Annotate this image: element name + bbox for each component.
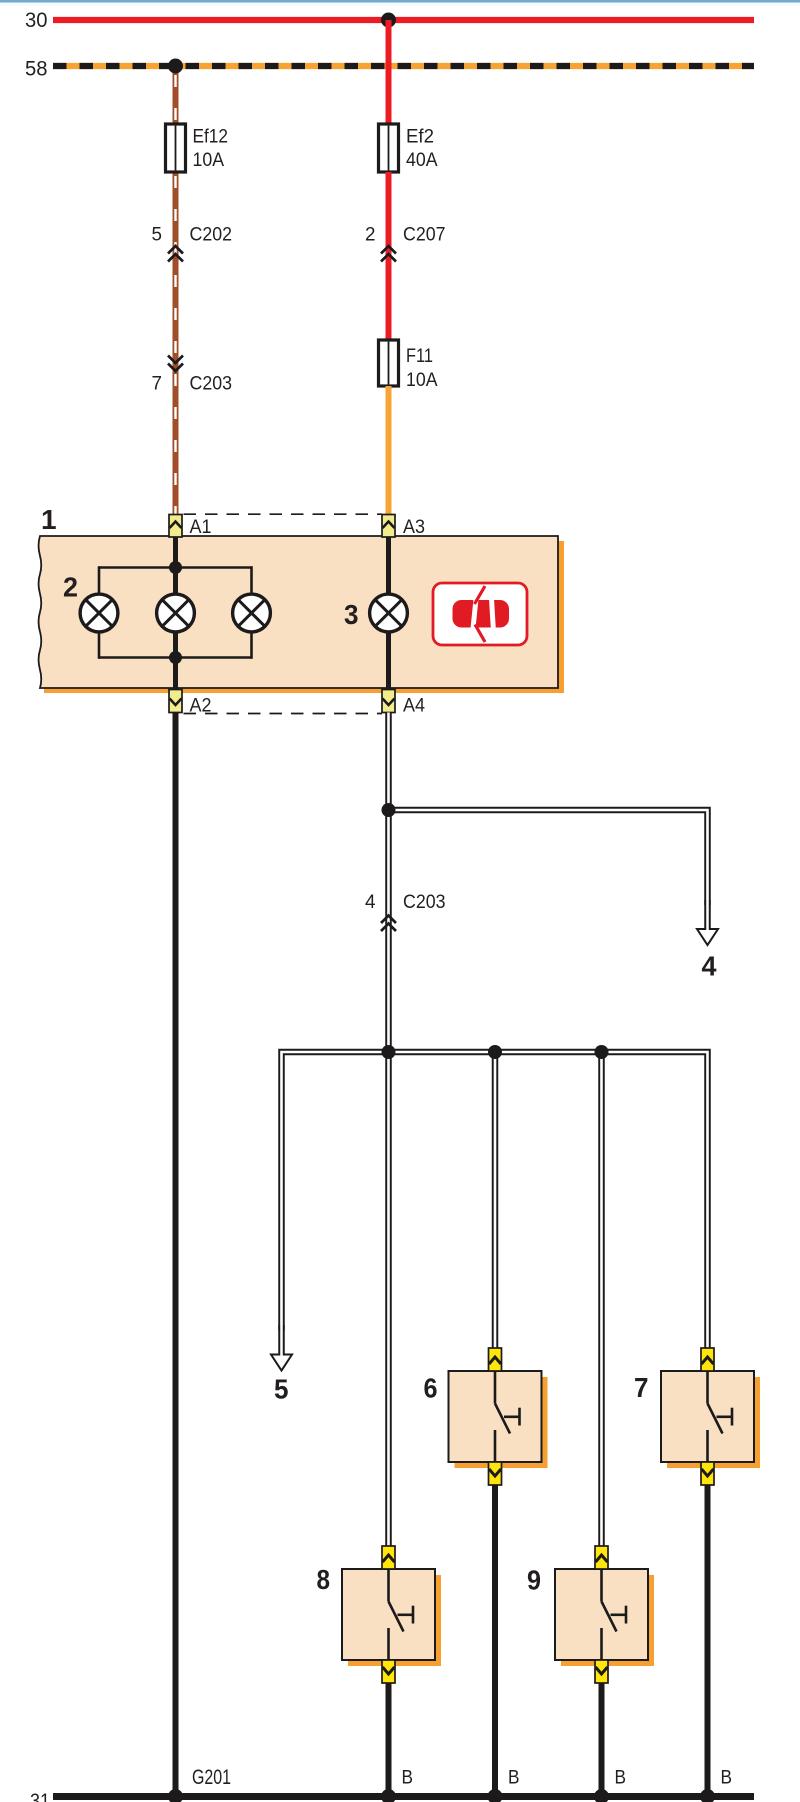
component 1: courtesy lamp unit box xyxy=(39,536,564,693)
junction B switch 8 xyxy=(381,1789,396,1802)
svg-text:10A: 10A xyxy=(406,369,438,391)
svg-text:6: 6 xyxy=(424,1373,438,1404)
svg-text:F11: F11 xyxy=(406,345,433,367)
pin A1 xyxy=(169,515,212,539)
svg-text:C203: C203 xyxy=(403,891,446,913)
dashed line A2-A4 xyxy=(184,713,383,715)
svg-text:40A: 40A xyxy=(406,149,438,171)
arrow to circuit 4 xyxy=(697,900,718,982)
svg-text:C203: C203 xyxy=(190,373,233,395)
wire black: pin A2 to ground bus 31 xyxy=(173,713,179,1797)
switch 8 bottom pin xyxy=(382,1660,395,1683)
arrow to circuit 5 xyxy=(271,1325,292,1405)
svg-text:A1: A1 xyxy=(190,516,212,538)
junction node top of lamp bus xyxy=(169,561,182,574)
lamp 2c xyxy=(233,594,271,632)
connector C207 pin 2 xyxy=(365,224,446,262)
lamp 3 xyxy=(370,594,408,632)
wire white: distribution bus to switches xyxy=(282,1052,708,1348)
bus 30 xyxy=(25,9,754,32)
svg-text:58: 58 xyxy=(25,57,48,80)
lamp 2a xyxy=(80,594,118,632)
svg-text:7: 7 xyxy=(152,373,163,395)
bus 58 xyxy=(25,57,754,80)
svg-text:Ef12: Ef12 xyxy=(193,126,229,148)
wire brown/white: bus 58 to fuse Ef12 xyxy=(173,66,179,124)
switch 6 bottom pin xyxy=(489,1462,502,1485)
wire white: branch to arrow 4 xyxy=(389,810,708,905)
ground bus 31 xyxy=(30,1790,754,1802)
switch 6 xyxy=(449,1371,548,1468)
wire red: fuse Ef2 to fuse F11 xyxy=(386,172,392,340)
fuse Ef2 40A xyxy=(379,124,438,172)
connector C202 pin 5 xyxy=(152,224,233,262)
connector C203 pin 7 xyxy=(152,356,233,395)
junction on bus 58 xyxy=(168,59,183,74)
pin A3 xyxy=(382,515,425,539)
switch 7 xyxy=(661,1371,760,1468)
svg-text:10A: 10A xyxy=(193,149,225,171)
switch 7 top pin xyxy=(701,1348,714,1371)
svg-text:C207: C207 xyxy=(403,224,446,246)
svg-text:7: 7 xyxy=(634,1372,649,1403)
switch 8 top pin xyxy=(382,1546,395,1569)
svg-text:5: 5 xyxy=(152,224,163,246)
svg-text:4: 4 xyxy=(365,891,376,913)
switch 8 xyxy=(342,1569,441,1666)
lamp 2b xyxy=(157,594,195,632)
svg-text:9: 9 xyxy=(527,1565,541,1596)
wire white: pin A4 down to switch 8 xyxy=(385,713,392,1547)
svg-text:1: 1 xyxy=(41,504,57,535)
wire red: bus 30 to fuse Ef2 xyxy=(386,20,392,124)
connector C203 pin 4 xyxy=(365,891,446,931)
switch 9 bottom pin xyxy=(595,1660,608,1683)
svg-text:2: 2 xyxy=(63,572,78,603)
svg-text:B: B xyxy=(615,1767,627,1789)
junction B switch 6 xyxy=(488,1789,503,1802)
svg-text:8: 8 xyxy=(317,1564,331,1595)
switch 6 top pin xyxy=(489,1348,502,1371)
switch 7 bottom pin xyxy=(701,1462,714,1485)
wire black: switch 9 to ground bus xyxy=(599,1683,605,1797)
svg-text:B: B xyxy=(721,1767,733,1789)
svg-text:G201: G201 xyxy=(192,1766,231,1789)
wire brown/white: fuse Ef12 to pin A1 xyxy=(173,172,179,515)
svg-text:5: 5 xyxy=(274,1374,289,1405)
wire black: switch 7 to ground bus xyxy=(705,1485,711,1797)
junction at branch to arrow 4 xyxy=(382,803,396,817)
dashed line A1-A3 xyxy=(184,513,383,515)
svg-text:B: B xyxy=(508,1767,520,1789)
junction on bus 30 xyxy=(381,13,396,28)
switch 9 top pin xyxy=(595,1546,608,1569)
svg-text:3: 3 xyxy=(344,599,359,630)
fuse Ef12 10A xyxy=(166,124,229,172)
wire orange: fuse F11 to pin A3 xyxy=(386,386,392,515)
svg-text:2: 2 xyxy=(365,224,376,246)
wire black: switch 8 to ground bus xyxy=(386,1683,392,1797)
switch 9 xyxy=(555,1569,654,1666)
wire white: bus to switch 9 xyxy=(598,1052,605,1546)
junction bus/switch 6 xyxy=(488,1045,502,1059)
svg-text:C202: C202 xyxy=(190,224,233,246)
junction B switch 7 xyxy=(700,1789,715,1802)
wire black: switch 6 to ground bus xyxy=(492,1485,498,1797)
wire white: bus to switch 6 xyxy=(492,1052,499,1348)
ground G201 junction xyxy=(168,1789,183,1802)
svg-text:A2: A2 xyxy=(190,695,212,717)
lamp group 2: parallel bus xyxy=(99,566,252,659)
junction B switch 9 xyxy=(594,1789,609,1802)
pin A2 xyxy=(169,690,212,717)
svg-text:B: B xyxy=(402,1767,414,1789)
svg-text:30: 30 xyxy=(25,9,48,32)
pin A4 xyxy=(382,690,425,717)
door ajar icon xyxy=(433,583,527,645)
junction bus/main wire xyxy=(382,1045,396,1059)
svg-text:31: 31 xyxy=(30,1790,50,1802)
svg-text:4: 4 xyxy=(702,951,717,982)
svg-text:Ef2: Ef2 xyxy=(406,126,434,148)
junction node bottom of lamp bus xyxy=(169,651,182,664)
fuse F11 10A xyxy=(379,340,438,391)
junction bus/switch 9 xyxy=(595,1045,609,1059)
wire: pin A3 to pin A4 inside box xyxy=(386,537,391,690)
wire: pin A1 to pin A2 inside box xyxy=(173,537,178,690)
svg-text:A3: A3 xyxy=(403,516,425,538)
svg-text:A4: A4 xyxy=(403,695,425,717)
